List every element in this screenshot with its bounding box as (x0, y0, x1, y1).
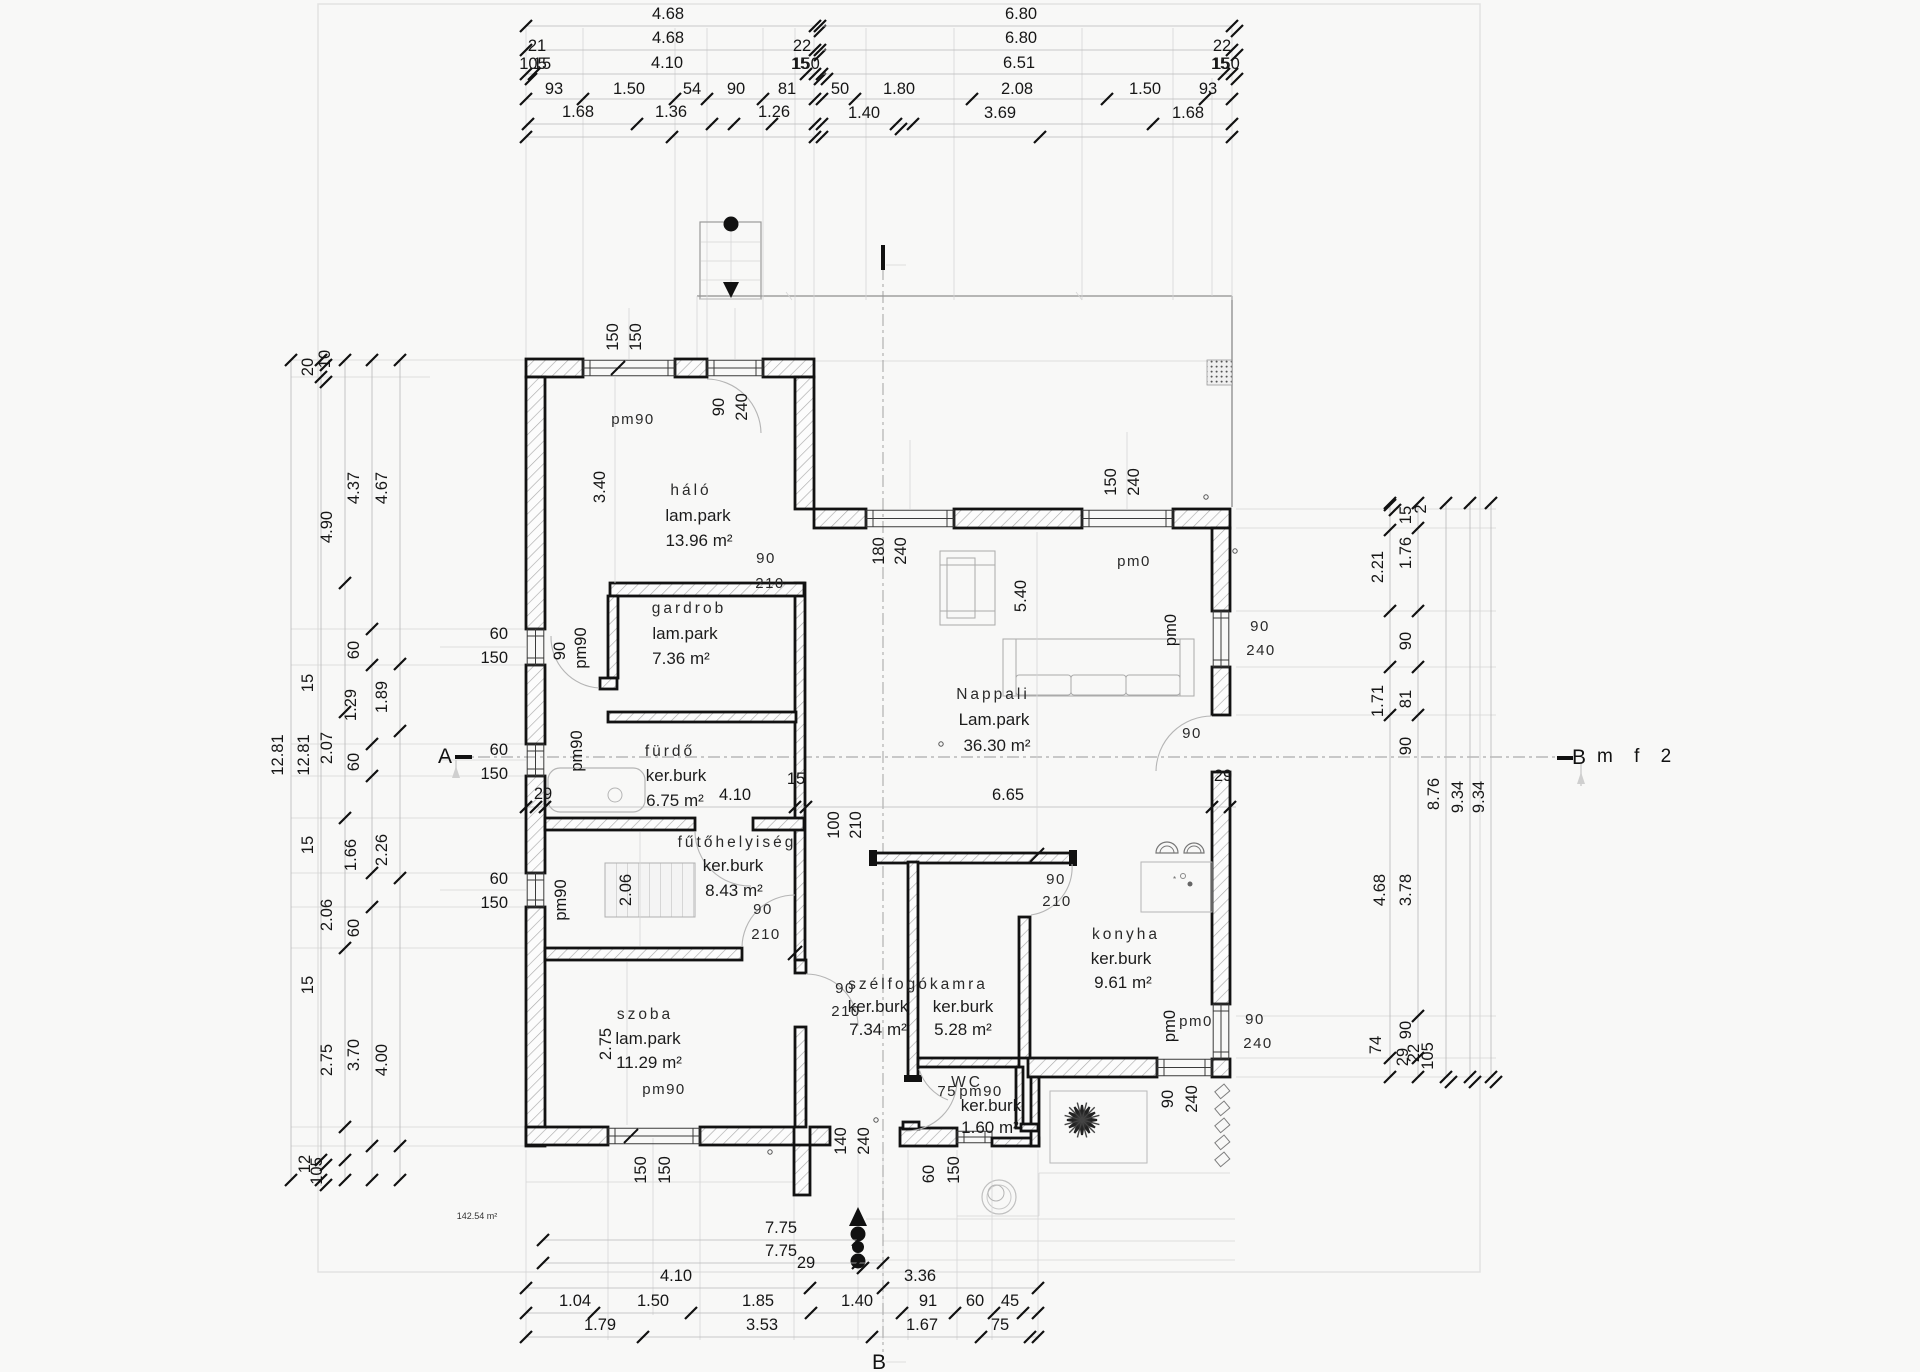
svg-text:1.80: 1.80 (883, 80, 915, 98)
svg-text:180: 180 (870, 537, 888, 565)
svg-text:4.68: 4.68 (1371, 874, 1389, 906)
svg-text:60: 60 (345, 753, 363, 771)
svg-text:240: 240 (855, 1127, 873, 1155)
svg-text:75: 75 (991, 1316, 1009, 1334)
svg-text:90: 90 (1046, 871, 1066, 888)
svg-text:7.34 m²: 7.34 m² (849, 1020, 907, 1039)
svg-text:150: 150 (656, 1156, 674, 1184)
svg-text:45: 45 (1001, 1292, 1019, 1310)
svg-text:74: 74 (1367, 1036, 1385, 1054)
svg-text:13.96 m²: 13.96 m² (665, 531, 732, 550)
svg-text:WC: WC (951, 1074, 983, 1091)
svg-text:pm90: pm90 (611, 411, 655, 428)
svg-text:1.66: 1.66 (342, 839, 360, 871)
svg-text:pm0: pm0 (1179, 1013, 1213, 1030)
svg-text:11.29 m²: 11.29 m² (616, 1053, 682, 1072)
svg-text:91: 91 (919, 1292, 937, 1310)
svg-text:240: 240 (1183, 1085, 1201, 1113)
svg-text:1.67: 1.67 (906, 1316, 938, 1334)
svg-text:1.36: 1.36 (655, 103, 687, 121)
svg-text:60: 60 (920, 1165, 938, 1183)
svg-text:90: 90 (753, 901, 773, 918)
svg-text:15: 15 (533, 55, 551, 73)
svg-text:1.40: 1.40 (848, 104, 880, 122)
svg-text:54: 54 (683, 80, 701, 98)
svg-text:6.80: 6.80 (1005, 5, 1037, 23)
svg-text:4.68: 4.68 (652, 5, 684, 23)
svg-text:1.50: 1.50 (1129, 80, 1161, 98)
svg-text:1.40: 1.40 (841, 1292, 873, 1310)
svg-text:ker.burk: ker.burk (703, 856, 764, 875)
svg-text:15: 15 (787, 770, 805, 788)
svg-text:pm90: pm90 (552, 879, 570, 920)
svg-text:240: 240 (1243, 1035, 1273, 1052)
svg-text:fűtőhelyiség: fűtőhelyiség (678, 834, 797, 851)
svg-text:60: 60 (345, 919, 363, 937)
svg-text:m f 2: m f 2 (1597, 746, 1679, 767)
svg-text:210: 210 (755, 575, 785, 592)
svg-text:3.78: 3.78 (1397, 874, 1415, 906)
svg-text:105: 105 (1419, 1042, 1437, 1070)
svg-text:90: 90 (551, 642, 569, 660)
svg-text:100: 100 (825, 811, 843, 839)
svg-text:29: 29 (797, 1254, 815, 1272)
svg-text:1.29: 1.29 (342, 689, 360, 721)
svg-text:240: 240 (733, 393, 751, 421)
svg-text:15: 15 (299, 836, 317, 854)
svg-text:210: 210 (847, 811, 865, 839)
svg-text:90: 90 (1245, 1011, 1265, 1028)
svg-text:2.08: 2.08 (1001, 80, 1033, 98)
svg-text:90: 90 (727, 80, 745, 98)
svg-text:6.80: 6.80 (1005, 29, 1037, 47)
svg-text:90: 90 (1182, 725, 1202, 742)
svg-text:4.10: 4.10 (660, 1267, 692, 1285)
svg-text:90: 90 (1397, 737, 1415, 755)
svg-text:90: 90 (756, 550, 776, 567)
svg-text:22: 22 (793, 37, 811, 55)
svg-text:6.51: 6.51 (1003, 54, 1035, 72)
svg-text:7.75: 7.75 (765, 1219, 797, 1237)
svg-text:pm90: pm90 (572, 627, 590, 668)
svg-text:7.36 m²: 7.36 m² (652, 649, 710, 668)
svg-text:fürdő: fürdő (645, 743, 695, 760)
svg-text:8.76: 8.76 (1425, 778, 1443, 810)
svg-text:29: 29 (1214, 767, 1232, 785)
svg-text:140: 140 (832, 1127, 850, 1155)
svg-text:1.85: 1.85 (742, 1292, 774, 1310)
svg-text:1.89: 1.89 (373, 681, 391, 713)
svg-text:60: 60 (490, 625, 508, 643)
svg-text:15: 15 (791, 55, 809, 73)
svg-text:150: 150 (480, 649, 508, 667)
svg-text:szoba: szoba (617, 1006, 673, 1023)
svg-text:90: 90 (1397, 632, 1415, 650)
svg-text:ker.burk: ker.burk (961, 1096, 1022, 1115)
svg-text:pm90: pm90 (568, 730, 586, 771)
svg-text:7.75: 7.75 (765, 1242, 797, 1260)
svg-text:210: 210 (751, 926, 781, 943)
svg-text:142.54 m²: 142.54 m² (457, 1211, 498, 1221)
svg-text:8.43 m²: 8.43 m² (705, 881, 763, 900)
svg-text:pm0: pm0 (1117, 553, 1151, 570)
svg-text:90: 90 (1250, 618, 1270, 635)
svg-text:1.04: 1.04 (559, 1292, 591, 1310)
svg-text:29: 29 (534, 785, 552, 803)
svg-text:3.70: 3.70 (345, 1039, 363, 1071)
svg-text:1.68: 1.68 (562, 103, 594, 121)
svg-text:*: * (1173, 875, 1176, 884)
svg-text:240: 240 (1246, 642, 1276, 659)
svg-text:1.71: 1.71 (1369, 685, 1387, 717)
svg-text:81: 81 (778, 80, 796, 98)
svg-text:60: 60 (490, 741, 508, 759)
svg-text:90: 90 (1397, 1021, 1415, 1039)
svg-text:3.36: 3.36 (904, 1267, 936, 1285)
svg-text:pm90: pm90 (642, 1081, 686, 1098)
svg-text:210: 210 (1042, 893, 1072, 910)
svg-text:3.53: 3.53 (746, 1316, 778, 1334)
svg-text:Nappali: Nappali (956, 686, 1030, 703)
svg-text:2.26: 2.26 (373, 834, 391, 866)
svg-text:pm0: pm0 (1161, 1010, 1179, 1042)
svg-text:2.75: 2.75 (597, 1028, 615, 1060)
svg-text:150: 150 (604, 323, 622, 351)
svg-text:4.68: 4.68 (652, 29, 684, 47)
svg-text:konyha: konyha (1092, 926, 1160, 943)
svg-text:5.40: 5.40 (1012, 580, 1030, 612)
svg-text:12.81: 12.81 (295, 734, 313, 775)
svg-text:4.90: 4.90 (318, 511, 336, 543)
svg-text:81: 81 (1397, 690, 1415, 708)
svg-text:20: 20 (299, 358, 317, 376)
svg-text:5.28 m²: 5.28 m² (934, 1020, 992, 1039)
svg-text:1.68: 1.68 (1172, 104, 1204, 122)
svg-text:93: 93 (545, 80, 563, 98)
svg-text:150: 150 (480, 765, 508, 783)
svg-text:lam.park: lam.park (652, 624, 718, 643)
svg-text:2.07: 2.07 (318, 732, 336, 764)
svg-text:1.50: 1.50 (613, 80, 645, 98)
svg-text:60: 60 (490, 870, 508, 888)
svg-text:2.06: 2.06 (318, 899, 336, 931)
svg-text:1.26: 1.26 (758, 103, 790, 121)
svg-text:A: A (438, 745, 452, 768)
svg-text:240: 240 (892, 537, 910, 565)
svg-text:4.67: 4.67 (373, 472, 391, 504)
svg-text:1.60 m²: 1.60 m² (961, 1118, 1019, 1137)
svg-text:szélfogókamra: szélfogókamra (848, 976, 988, 993)
svg-text:1.50: 1.50 (637, 1292, 669, 1310)
svg-text:150: 150 (945, 1156, 963, 1184)
svg-text:60: 60 (345, 641, 363, 659)
svg-text:lam.park: lam.park (615, 1029, 681, 1048)
svg-text:36.30 m²: 36.30 m² (963, 736, 1030, 755)
svg-text:2.06: 2.06 (617, 874, 635, 906)
svg-text:150: 150 (627, 323, 645, 351)
svg-text:ker.burk: ker.burk (1091, 949, 1152, 968)
svg-text:B: B (872, 1351, 886, 1372)
svg-text:150: 150 (480, 894, 508, 912)
svg-text:105: 105 (308, 1157, 326, 1185)
svg-text:lam.park: lam.park (665, 506, 731, 525)
svg-text:4.37: 4.37 (345, 472, 363, 504)
svg-text:150: 150 (1102, 468, 1120, 496)
svg-text:6.65: 6.65 (992, 786, 1024, 804)
svg-text:15: 15 (299, 674, 317, 692)
svg-text:2.21: 2.21 (1369, 551, 1387, 583)
svg-text:ker.burk: ker.burk (848, 997, 909, 1016)
svg-text:60: 60 (966, 1292, 984, 1310)
svg-text:12.81: 12.81 (269, 734, 287, 775)
svg-text:2.75: 2.75 (318, 1044, 336, 1076)
svg-text:9.34: 9.34 (1470, 781, 1488, 813)
svg-text:4.10: 4.10 (651, 54, 683, 72)
svg-text:4.10: 4.10 (719, 786, 751, 804)
svg-text:50: 50 (831, 80, 849, 98)
svg-text:6.75 m²: 6.75 m² (646, 791, 704, 810)
svg-text:240: 240 (1125, 468, 1143, 496)
svg-text:90: 90 (1159, 1090, 1177, 1108)
svg-text:9.61 m²: 9.61 m² (1094, 973, 1152, 992)
svg-text:Lam.park: Lam.park (959, 710, 1030, 729)
svg-text:pm0: pm0 (1162, 614, 1180, 646)
svg-text:1.76: 1.76 (1397, 537, 1415, 569)
svg-text:9.34: 9.34 (1449, 781, 1467, 813)
svg-text:90: 90 (710, 398, 728, 416)
svg-text:15: 15 (299, 976, 317, 994)
svg-text:háló: háló (670, 482, 711, 499)
svg-text:4.00: 4.00 (373, 1044, 391, 1076)
svg-text:150: 150 (632, 1156, 650, 1184)
svg-text:ker.burk: ker.burk (646, 766, 707, 785)
svg-text:3.69: 3.69 (984, 104, 1016, 122)
svg-text:gardrob: gardrob (652, 600, 726, 617)
svg-text:ker.burk: ker.burk (933, 997, 994, 1016)
svg-text:3.40: 3.40 (591, 471, 609, 503)
svg-text:B: B (1572, 746, 1586, 769)
